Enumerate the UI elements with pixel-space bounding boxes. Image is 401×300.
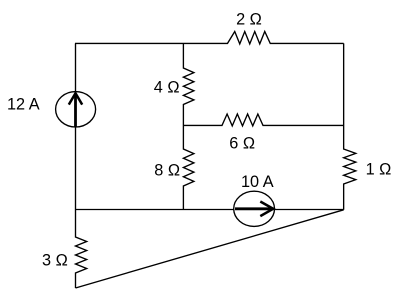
wire bottom left segment	[75, 209, 234, 211]
wire top branch with resistor R 2ohm	[75, 32, 344, 44]
svg-text:10 A: 10 A	[241, 173, 274, 191]
svg-text:12 A: 12 A	[7, 96, 40, 114]
wire right column with resistor R 1ohm	[344, 43, 356, 209]
wire middle column with resistor 4ohm and resistor 8ohm	[183, 43, 194, 209]
current source I1 12A circle	[56, 92, 96, 127]
svg-text:2 Ω: 2 Ω	[236, 11, 262, 29]
svg-text:8 Ω: 8 Ω	[154, 162, 180, 180]
wire bottom right segment	[275, 209, 344, 211]
current source I2 arrow right	[235, 202, 273, 217]
wire left branch upper	[75, 43, 77, 91]
svg-text:6 Ω: 6 Ω	[229, 134, 255, 152]
svg-text:3 Ω: 3 Ω	[42, 251, 68, 269]
svg-text:4 Ω: 4 Ω	[154, 78, 180, 96]
wire 6ohm branch with resistor R 6ohm	[183, 114, 343, 126]
current source I2 10A circle	[234, 191, 275, 226]
wire left branch lower	[75, 127, 77, 210]
current source I1 arrow up	[69, 93, 82, 127]
wire lower-left column with resistor R 3ohm	[76, 210, 87, 289]
wire diagonal return	[76, 210, 344, 288]
svg-text:1 Ω: 1 Ω	[366, 160, 392, 178]
